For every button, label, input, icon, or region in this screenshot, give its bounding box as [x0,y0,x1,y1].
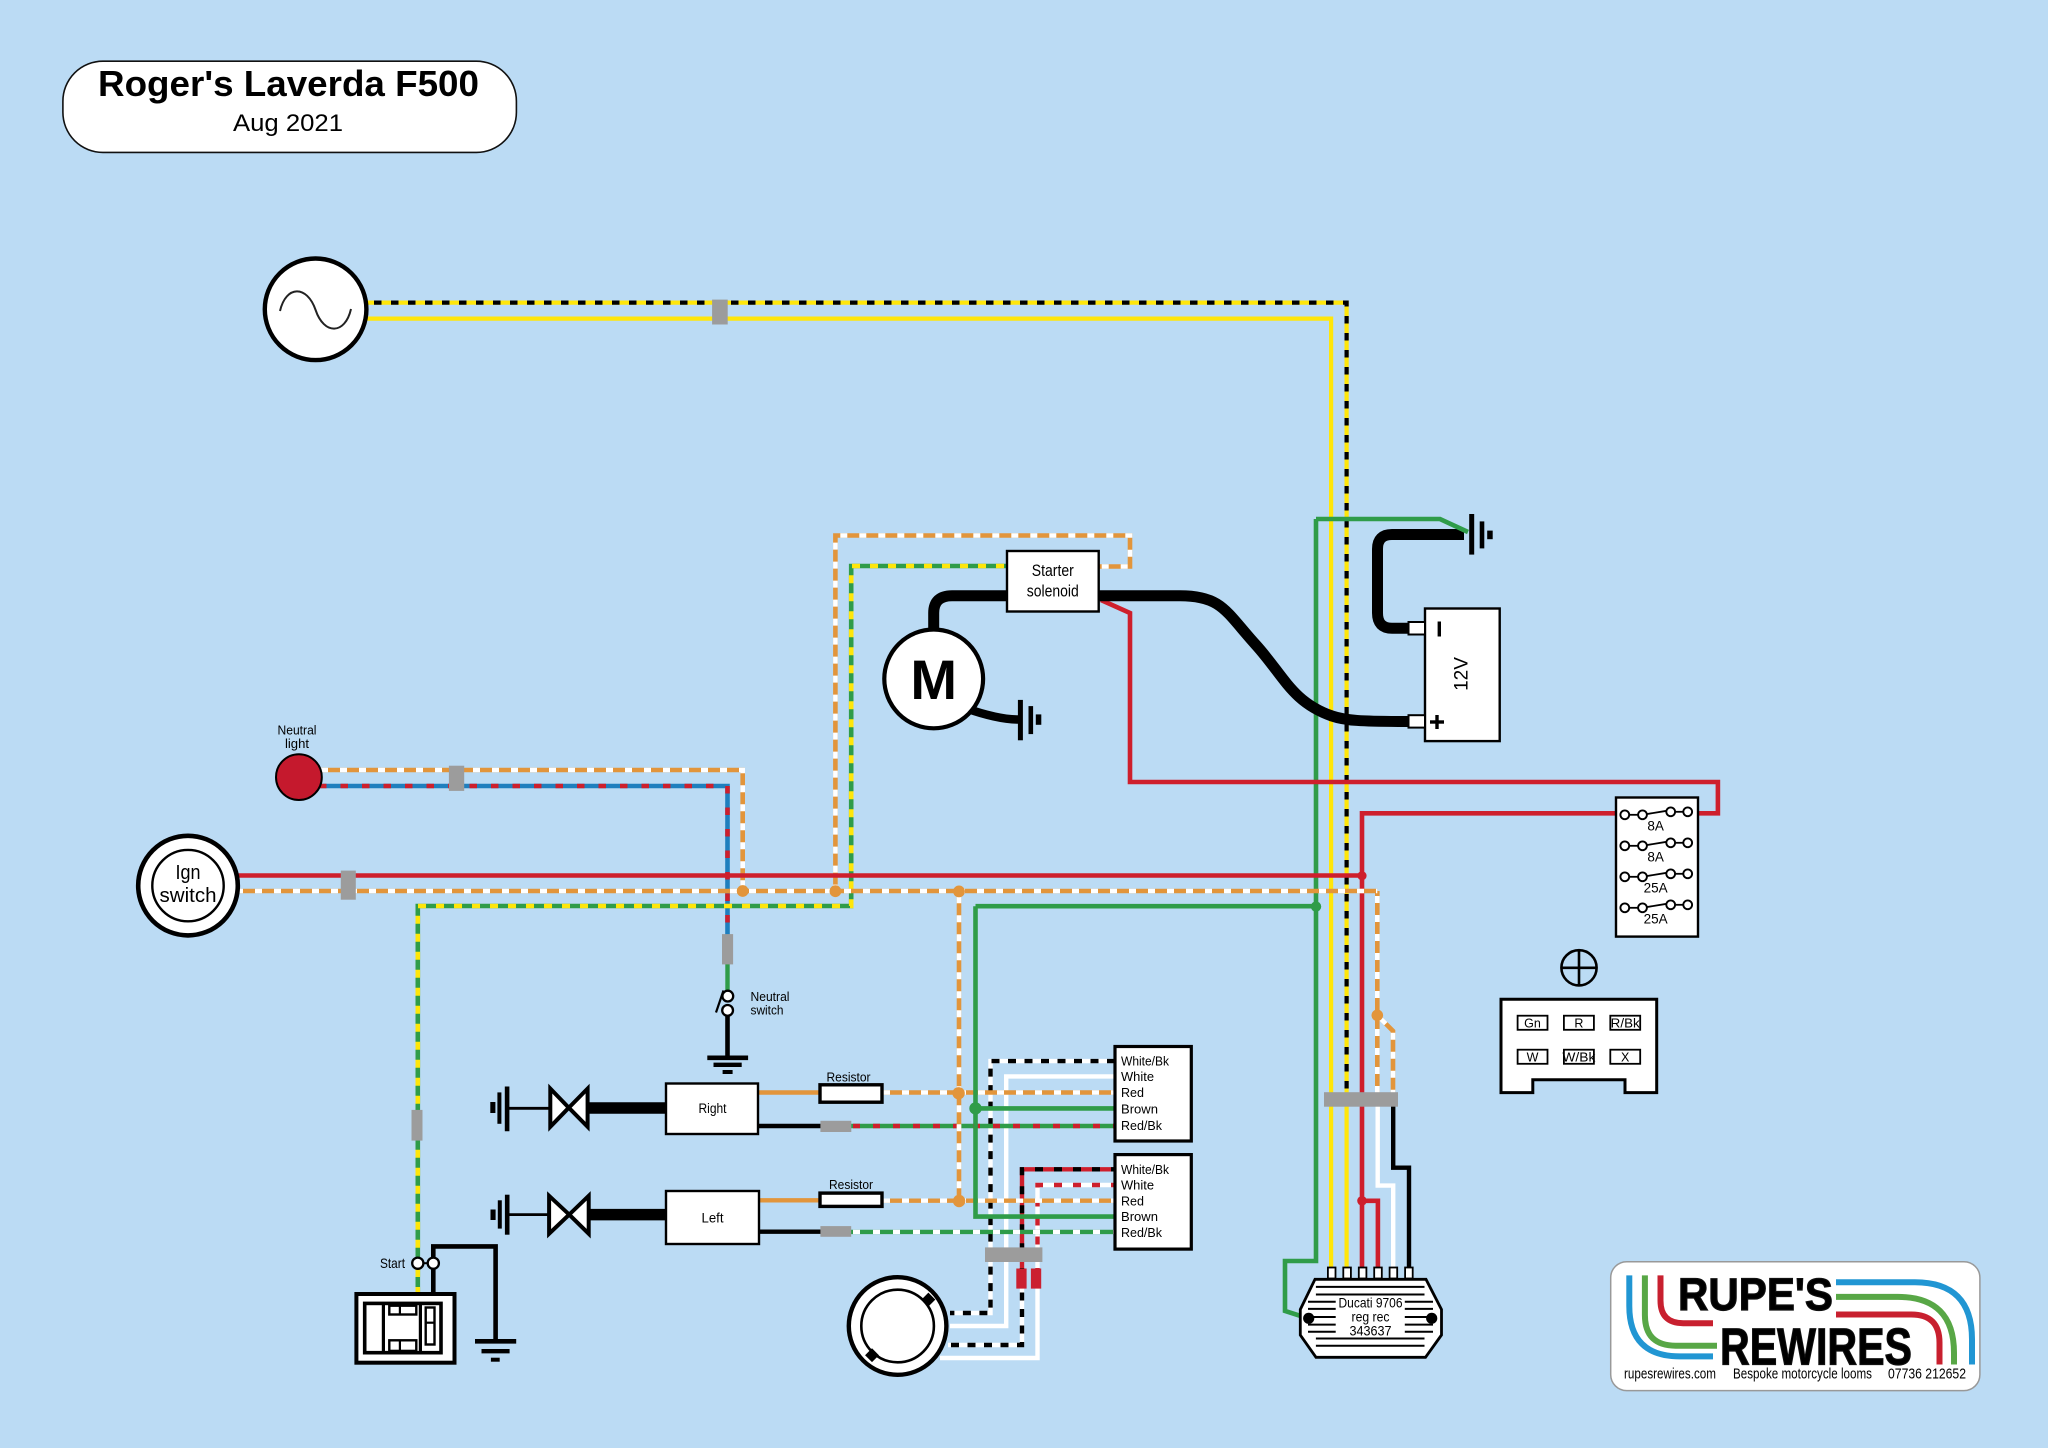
wire yellow to reg rec pin 1 [1329,1100,1333,1268]
svg-text:Aug 2021: Aug 2021 [233,110,343,137]
svg-text:8A: 8A [1647,849,1664,864]
wire black battery negative to earth [1378,535,1465,629]
svg-text:Resistor: Resistor [829,1178,873,1192]
wire orange Left switch to resistor [759,1198,822,1202]
wire black left indicator earth lead [509,1213,551,1216]
svg-text:White: White [1121,1179,1154,1193]
svg-text:W/Bk: W/Bk [1562,1050,1596,1064]
svg-text:12V: 12V [1452,657,1473,691]
connector multi-way loom block lower [985,1247,1042,1262]
svg-text:343637: 343637 [1350,1323,1392,1339]
alternator [265,259,367,361]
starter solenoid [1007,551,1099,612]
junction orange neutral light feed [737,885,749,897]
wire orange/white resistor to connector block 2 Red [880,1198,1115,1202]
svg-text:W: W [1527,1050,1539,1064]
resistor left [820,1178,882,1206]
wire white bullet to flasher unit [940,1287,1038,1358]
wire orange Right switch to resistor [758,1090,822,1094]
svg-text:White: White [1121,1070,1154,1084]
wire green below connector to neutral switch [725,962,729,991]
svg-text:White/Bk: White/Bk [1121,1055,1170,1069]
wire black start button lower stub [431,1269,436,1296]
resistor right [820,1071,882,1103]
svg-text:Brown: Brown [1121,1210,1158,1224]
wire green/white connector to block 2 Red/Bk [849,1230,1115,1234]
junction red reg rec branch [1357,1196,1367,1206]
wire white connector block 1 to flasher unit [950,1076,1115,1326]
svg-text:switch: switch [160,885,217,907]
wire green/yellow starter solenoid to start button [418,566,1007,1258]
fuse box [1616,798,1698,937]
connector bullet on neutral switch wire [722,934,733,964]
svg-text:solenoid: solenoid [1027,583,1079,601]
wire white/red connector block 2 to connector [1038,1185,1116,1253]
junction red ignition to fuse [1357,871,1366,880]
Left switch box [666,1191,759,1244]
svg-text:25A: 25A [1644,911,1668,926]
svg-text:07736 212652: 07736 212652 [1888,1366,1966,1383]
earth neutral switch [707,1058,748,1072]
svg-text:Red: Red [1121,1195,1144,1209]
wire black right indicator to Right switch [586,1102,670,1114]
junction orange resistor feed top [953,886,965,898]
svg-text:Left: Left [702,1210,724,1225]
wire black right indicator earth lead [509,1107,552,1110]
wire green vertical to block 2 Brown [976,906,1116,1216]
connector block 2 [1115,1155,1191,1250]
svg-text:R: R [1574,1016,1583,1030]
6 pin connector housing [1501,999,1657,1092]
earth right indicator [490,1087,507,1132]
svg-text:Red/Bk: Red/Bk [1121,1226,1163,1240]
wire black start button to earth [433,1246,495,1339]
start button [380,1255,439,1271]
svg-text:8A: 8A [1647,818,1664,833]
wire black Right switch to connector [758,1124,824,1128]
connector bullet on Left switch black wire [820,1226,851,1237]
svg-text:Red: Red [1121,1086,1144,1100]
earth battery negative [1472,514,1493,555]
wire black starter motor to solenoid [934,596,1010,632]
junction orange resistor 1 [952,1087,964,1099]
junction green block 1 brown [969,1102,981,1114]
Rupe's Rewires logo [1611,1262,1980,1391]
junction green main [1311,901,1321,911]
svg-text:Gn: Gn [1524,1016,1541,1030]
earth starter motor [1020,700,1041,740]
wire green to battery earth point [1316,519,1468,532]
wire black neutral switch to earth [725,1016,730,1056]
wire orange/white ignition switch accessory feed [230,889,1377,894]
neutral switch [716,989,790,1018]
crosshair symbol [1561,950,1596,985]
svg-text:M: M [910,648,957,711]
wire white/red stub above red bullet [1035,1256,1039,1270]
wire green/red connector to block 1 Red/Bk [849,1124,1115,1128]
wire green branch to block 1 Brown [976,1106,1116,1111]
wire orange/white loop starter solenoid [835,536,1130,889]
connector multi-way loom block upper [1324,1092,1398,1107]
starter relay box [356,1294,454,1363]
wire blue/red neutral light to neutral switch [315,786,728,936]
svg-text:Ign: Ign [176,862,201,884]
wire red ignition switch to fuse junction [230,873,1362,878]
svg-text:X: X [1621,1050,1630,1064]
junction orange solenoid loop [830,885,842,897]
svg-text:Roger's Laverda F500: Roger's Laverda F500 [98,63,479,104]
wire green main vertical to reg rec [1285,519,1316,1318]
wire yellow to reg rec pin 2 [1344,1100,1348,1268]
connector bullet pair on alternator wires [712,300,728,325]
wire orange/white resistor to connector block 1 Red [880,1090,1115,1094]
wire yellow alternator to loom [360,319,1331,1100]
title box [63,61,517,152]
earth left indicator [491,1195,508,1235]
svg-text:rupesrewires.com: rupesrewires.com [1624,1366,1716,1383]
wire green loom junction to main green [976,904,1317,909]
svg-text:Red/Bk: Red/Bk [1121,1119,1163,1133]
wire red/black connector stub above red bullet [1020,1256,1024,1270]
wire red/black connector block 2 to connector [1022,1169,1115,1253]
ignition switch [138,836,238,936]
wire black loom to reg rec pin 6 [1393,1100,1409,1268]
wire black solenoid to battery positive [1095,596,1410,722]
neutral light [276,723,322,800]
wire white loom to reg rec pin 5 [1378,1100,1394,1268]
wire orange/white branch to loom [1377,1015,1393,1100]
svg-text:RUPE'S: RUPE'S [1678,1269,1833,1320]
connector bullet on Right switch black wire [820,1121,851,1132]
svg-text:Right: Right [699,1101,727,1116]
junction orange resistor 2 [953,1195,965,1207]
connector block 1 [1115,1047,1191,1142]
svg-text:R/Bk: R/Bk [1611,1016,1641,1030]
wire red branch to reg rec pin 4 [1362,1201,1378,1268]
red bullet connector 2 [1031,1269,1041,1289]
flasher unit [849,1277,947,1375]
earth start circuit [475,1341,516,1359]
junction orange loom split [1372,1010,1384,1022]
connector bullet pair on neutral light wires [449,766,464,791]
svg-text:Bespoke motorcycle looms: Bespoke motorcycle looms [1733,1366,1872,1383]
battery 12V [1409,609,1500,742]
wire white/black connector block 1 to flasher unit [950,1061,1115,1313]
wire black starter motor earth [965,708,1018,720]
starter motor M [884,630,983,729]
wire black Left switch to connector [759,1229,824,1233]
regulator rectifier Ducati 9706 [1300,1268,1441,1358]
connector bullet pair on ignition wires [341,871,356,900]
connector bullet on start wire [412,1110,423,1141]
wire green/yellow start button to relay [415,1269,420,1296]
left indicator lamp [549,1196,589,1234]
svg-text:Brown: Brown [1121,1102,1158,1116]
right indicator lamp [550,1089,587,1127]
Right switch box [666,1084,758,1135]
wire orange/white vertical to resistor junctions [957,891,962,1201]
svg-text:Start: Start [380,1255,405,1271]
svg-text:Resistor: Resistor [827,1071,871,1085]
svg-text:light: light [285,736,309,751]
wire white/black bullet to flasher unit [948,1287,1022,1345]
svg-text:25A: 25A [1644,880,1668,895]
wire red starter solenoid to fuse [1101,600,1718,813]
wire orange/white vertical ign feed to loom [1375,891,1380,1100]
svg-text:Starter: Starter [1032,562,1074,580]
red bullet connector 1 [1016,1269,1026,1289]
wire red fuse to junction and reg rec pin 3 [1362,813,1616,1268]
wire yellow/black alternator to loom [360,303,1347,1100]
svg-text:White/Bk: White/Bk [1121,1163,1170,1177]
svg-text:switch: switch [751,1003,784,1018]
wire orange/white neutral light feed [315,770,743,888]
wire black left indicator to Left switch [586,1209,670,1221]
